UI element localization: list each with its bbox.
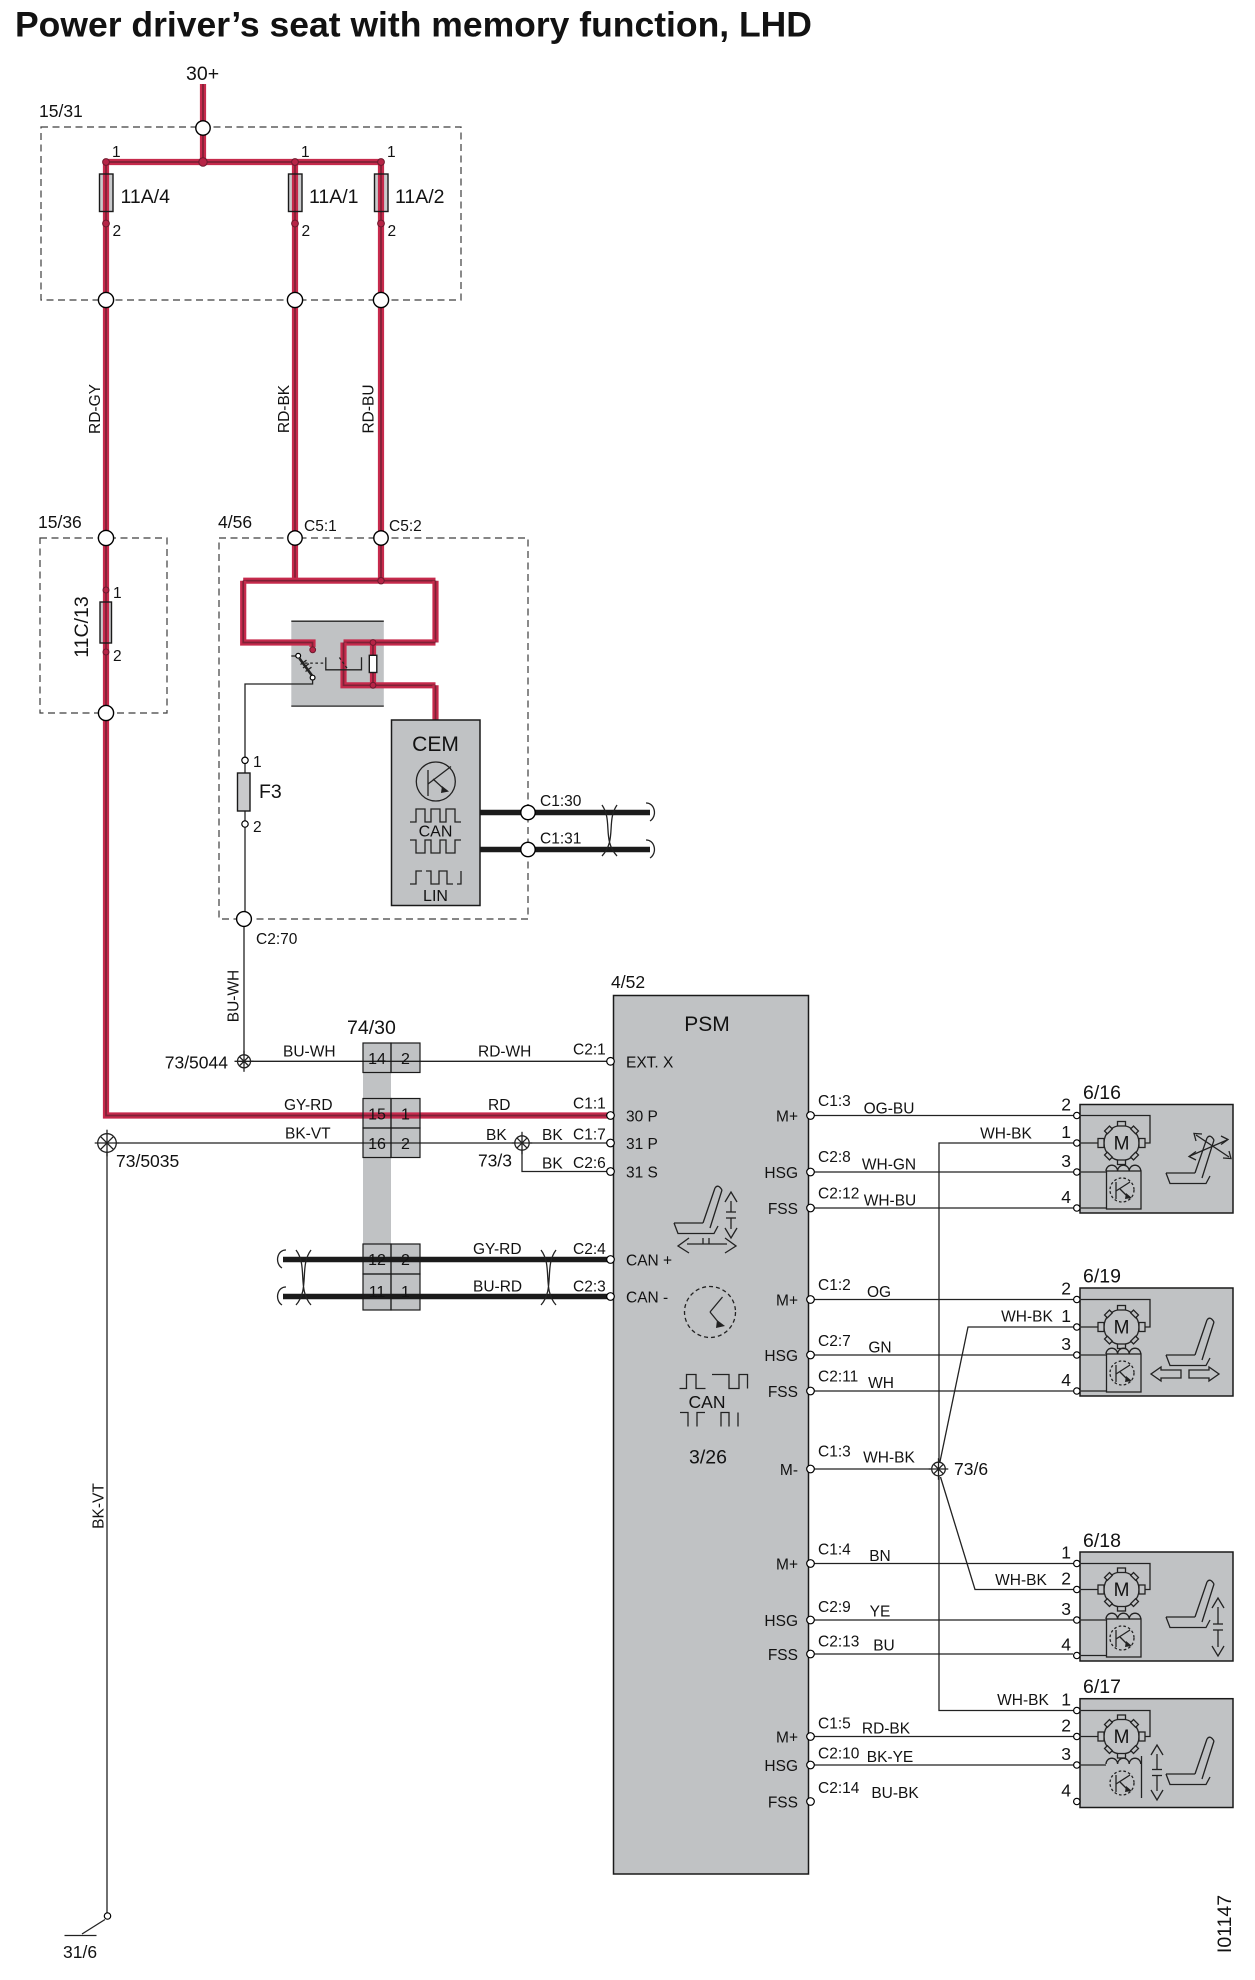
seat motor module 6/16 [1080, 1105, 1233, 1214]
PSM pin C1:7 31 P [607, 1139, 615, 1147]
connector circle 15/31 left [98, 292, 113, 307]
connector circle 15/31 right [373, 292, 388, 307]
svg-text:6/19: 6/19 [1083, 1266, 1121, 1288]
relay switch arm [300, 659, 313, 676]
svg-text:C1:3: C1:3 [818, 1444, 851, 1461]
PSM right pin FSS@1208 [807, 1204, 815, 1212]
svg-text:BN: BN [869, 1548, 891, 1565]
PSM timer/clock icon [685, 1287, 736, 1338]
connector circle C1:31 [521, 842, 535, 856]
svg-text:BK-YE: BK-YE [867, 1749, 914, 1766]
wire YE HSG to 6/18:3 [814, 1619, 1073, 1621]
PSM pin C2:1 EXT. X [607, 1058, 615, 1066]
svg-text:30+: 30+ [186, 63, 219, 85]
pin 6/19:4 [1074, 1388, 1080, 1394]
svg-text:1: 1 [113, 585, 122, 602]
seat icon 6/18 [1166, 1580, 1214, 1627]
connector circle 30+ / 15/31 [196, 121, 210, 135]
svg-text:31 S: 31 S [626, 1165, 658, 1182]
svg-text:BU-WH: BU-WH [283, 1044, 336, 1061]
pin 6/17:2 [1074, 1733, 1080, 1739]
wire 6/17 motor direct [1081, 1736, 1098, 1738]
PSM seat fore/aft arrow [678, 1238, 736, 1253]
svg-text:WH-BK: WH-BK [980, 1126, 1032, 1143]
wire 6/18 motor direct [1081, 1589, 1098, 1591]
svg-text:HSG: HSG [764, 1165, 798, 1182]
svg-text:GN: GN [868, 1340, 891, 1357]
PSM pin C1:1 30 P [607, 1112, 615, 1120]
svg-text:HSG: HSG [764, 1758, 798, 1775]
svg-text:C2:70: C2:70 [256, 931, 298, 948]
PSM right pin M+@1299.5 [807, 1296, 815, 1304]
heater/sensor unit 6/19 [1106, 1348, 1141, 1392]
pin 11A/2:2 [378, 220, 385, 227]
svg-text:3: 3 [1061, 1334, 1071, 1354]
pin 6/18:1 [1074, 1560, 1080, 1566]
svg-text:1: 1 [301, 144, 310, 161]
motor 6/19 [1098, 1306, 1145, 1349]
svg-text:1: 1 [1061, 1306, 1071, 1326]
svg-text:3: 3 [1061, 1744, 1071, 1764]
wire F3 top lead [244, 764, 246, 774]
svg-text:M: M [1114, 1318, 1130, 1339]
svg-text:C1:2: C1:2 [818, 1277, 851, 1294]
pin 6/18:4 [1074, 1652, 1080, 1658]
relay box edges [291, 621, 384, 706]
svg-text:M+: M+ [776, 1293, 798, 1310]
wire relay switch to F3 [245, 680, 313, 757]
connector 74/30 cells [363, 1043, 420, 1310]
svg-text:3: 3 [1061, 1151, 1071, 1171]
svg-text:1: 1 [1061, 1690, 1071, 1710]
wire BK-VT / BK to PSM 31P [114, 1142, 608, 1144]
svg-text:OG-BU: OG-BU [864, 1101, 915, 1118]
PSM seat up/down arrow [725, 1192, 737, 1238]
seat icon 6/16 [1166, 1136, 1214, 1183]
wire 6/18 heater lead [1081, 1619, 1106, 1621]
connector circle C2:70 [237, 912, 252, 927]
wire relay coil feed drop [432, 581, 438, 643]
pin F3:2 [242, 821, 248, 827]
wire 6/16 sensor lead [1081, 1207, 1107, 1209]
svg-text:FSS: FSS [768, 1795, 798, 1812]
PSM right pin HSG@1620 [807, 1616, 815, 1624]
pin 6/17:1 [1074, 1707, 1080, 1713]
svg-text:16: 16 [368, 1136, 386, 1153]
up/down arrow 6/18 [1212, 1598, 1224, 1656]
svg-text:1: 1 [1061, 1122, 1071, 1142]
svg-text:C2:14: C2:14 [818, 1780, 860, 1797]
PSM right pin FSS@1654 [807, 1650, 815, 1658]
svg-text:4: 4 [1061, 1635, 1071, 1655]
svg-text:30 P: 30 P [626, 1109, 658, 1126]
wire 6/19 heater lead [1081, 1354, 1106, 1356]
PSM pin C2:3 CAN - [607, 1293, 615, 1301]
svg-text:C1:31: C1:31 [540, 831, 581, 848]
connector circle 15/36 top [98, 530, 113, 545]
svg-text:14: 14 [368, 1051, 386, 1068]
seat motor module 6/19 [1080, 1288, 1233, 1396]
svg-text:BK-VT: BK-VT [91, 1483, 108, 1529]
wire GN HSG to 6/19:3 [814, 1354, 1073, 1356]
pin 6/18:3 [1074, 1617, 1080, 1623]
fuse 11A/1 [289, 174, 303, 212]
svg-text:C2:7: C2:7 [818, 1333, 851, 1350]
wire RD-BK M+ to 6/17:2 [814, 1736, 1073, 1738]
svg-text:CAN +: CAN + [626, 1253, 672, 1270]
PSM right pin HSG@1355 [807, 1351, 815, 1359]
seat motor module 6/17 [1080, 1699, 1233, 1808]
CEM LIN symbol [410, 871, 461, 884]
PSM right pin FSS@1801.5 [807, 1798, 815, 1806]
wire OG-BU M+ to 6/16:2 [814, 1115, 1073, 1117]
PSM CAN symbol [680, 1375, 748, 1389]
wire 6/18 sensor lead [1081, 1655, 1107, 1657]
wire coil loop [344, 643, 436, 686]
wire relay supply rail in 4/56 [243, 578, 435, 584]
svg-text:31 P: 31 P [626, 1136, 658, 1153]
relay armature pin [310, 675, 315, 680]
svg-text:73/5044: 73/5044 [165, 1053, 229, 1073]
CEM CAN symbol [410, 809, 461, 822]
svg-text:RD-BK: RD-BK [276, 384, 293, 433]
svg-text:M+: M+ [776, 1730, 798, 1747]
svg-text:1: 1 [387, 144, 396, 161]
svg-text:2: 2 [401, 1136, 410, 1153]
svg-text:74/30: 74/30 [347, 1017, 396, 1039]
PSM right pin M-@1469 [807, 1465, 815, 1473]
svg-text:M+: M+ [776, 1557, 798, 1574]
svg-text:HSG: HSG [764, 1613, 798, 1630]
svg-text:2: 2 [1061, 1095, 1071, 1115]
svg-text:11A/2: 11A/2 [395, 186, 445, 208]
wire 6/16 motor direct [1081, 1142, 1098, 1144]
pin 6/16:1 [1074, 1140, 1080, 1146]
fore/aft arrows 6/19 [1151, 1367, 1219, 1381]
svg-text:11A/1: 11A/1 [309, 186, 359, 208]
wire 6/17 motor loop [1081, 1711, 1150, 1737]
connector circle 15/31 mid [287, 292, 302, 307]
svg-text:C1:5: C1:5 [818, 1716, 851, 1733]
wire BU FSS to 6/18:4 [814, 1653, 1073, 1655]
wire relay switch lead [291, 655, 296, 657]
relay contact feed pin [310, 647, 316, 653]
fuse 11A/4 [100, 174, 114, 212]
svg-text:73/5035: 73/5035 [116, 1151, 179, 1171]
svg-text:12: 12 [368, 1252, 386, 1269]
twisted pair crossover CAN right [541, 1250, 556, 1305]
svg-text:OG: OG [867, 1284, 891, 1301]
motor 6/16 [1098, 1122, 1145, 1165]
fuse 11A/4 body [100, 174, 114, 212]
wire BK branch to PSM 31S [522, 1150, 607, 1172]
wire 6/19 motor loop [1081, 1300, 1150, 1328]
relay/CEM box 4/56 [219, 538, 528, 919]
svg-text:2: 2 [1061, 1716, 1071, 1736]
svg-text:BU: BU [873, 1638, 895, 1655]
svg-text:HSG: HSG [764, 1348, 798, 1365]
svg-text:C1:1: C1:1 [573, 1096, 606, 1113]
svg-text:6/17: 6/17 [1083, 1676, 1121, 1698]
wire 6/19 sensor lead [1081, 1390, 1107, 1392]
svg-text:FSS: FSS [768, 1201, 798, 1218]
wire RD-BK run to C5:1 [292, 162, 298, 545]
splice 73/5044 [235, 1051, 254, 1072]
pin 11C/13:1 [103, 587, 109, 593]
svg-text:73/3: 73/3 [478, 1151, 512, 1171]
svg-text:1: 1 [401, 1107, 410, 1124]
wire F3 to C2:70 [244, 811, 246, 916]
svg-text:2: 2 [113, 223, 122, 240]
svg-text:CAN: CAN [419, 824, 453, 841]
relay contact pin [296, 653, 301, 658]
svg-text:BU-RD: BU-RD [473, 1279, 522, 1296]
svg-text:M+: M+ [776, 1109, 798, 1126]
svg-text:1: 1 [1061, 1543, 1071, 1563]
PSM right pin HSG@1172 [807, 1168, 815, 1176]
svg-text:15/36: 15/36 [38, 512, 82, 532]
wire BK-YE HSG to 6/17:3 [814, 1764, 1073, 1766]
seat motor module 6/18 [1080, 1552, 1233, 1661]
seat icon 6/19 [1166, 1318, 1214, 1365]
svg-text:I01147: I01147 [1214, 1895, 1236, 1953]
svg-text:M-: M- [780, 1462, 798, 1479]
junction 30+ rail [199, 158, 207, 166]
up/down arrow 6/17 [1151, 1745, 1163, 1800]
svg-text:RD-BK: RD-BK [862, 1721, 911, 1738]
svg-text:11: 11 [369, 1284, 386, 1301]
svg-text:PSM: PSM [684, 1013, 730, 1036]
connector circle C5:2 [374, 531, 388, 545]
relay coil pin top [370, 640, 376, 646]
pin 11A/1:2 [292, 220, 299, 227]
CAN wire start hooks [278, 1250, 286, 1305]
svg-text:WH-BK: WH-BK [997, 1692, 1049, 1709]
PSM pin C2:4 CAN + [607, 1256, 615, 1264]
wire BK-VT ground run [106, 1152, 108, 1913]
PSM right pin HSG@1765 [807, 1761, 815, 1769]
svg-text:Power driver’s seat with memor: Power driver’s seat with memory function… [15, 5, 812, 45]
svg-text:4: 4 [1061, 1187, 1071, 1207]
pin 6/16:4 [1074, 1205, 1080, 1211]
fuse holder box 15/36 [40, 538, 167, 713]
svg-text:C2:4: C2:4 [573, 1241, 606, 1258]
CAN wire end hooks CEM [646, 803, 654, 858]
pin 6/17:3 [1074, 1762, 1080, 1768]
fuse 11C/13 body [100, 602, 112, 643]
svg-text:BU-WH: BU-WH [226, 970, 243, 1023]
pin 6/19:3 [1074, 1352, 1080, 1358]
wire 6/16 heater lead [1081, 1171, 1106, 1173]
wire C5:1 drop into 4/56 [292, 538, 298, 581]
svg-text:BK: BK [542, 1156, 563, 1173]
connector 74/30 body [363, 1043, 391, 1310]
svg-text:11C/13: 11C/13 [71, 596, 93, 657]
svg-text:CEM: CEM [412, 733, 459, 756]
svg-text:4/56: 4/56 [218, 512, 252, 532]
wire 6/18 motor loop [1081, 1564, 1150, 1590]
wire WH-BK splice to 6/17:1 [939, 1476, 1073, 1711]
pin 11A/2:1 [378, 159, 385, 166]
pin 11A/1:1 [292, 159, 299, 166]
svg-text:CAN -: CAN - [626, 1290, 668, 1307]
svg-text:WH-BK: WH-BK [1001, 1309, 1053, 1326]
svg-text:3/26: 3/26 [689, 1447, 727, 1469]
pin 11A/4:1 [103, 159, 110, 166]
svg-text:4/52: 4/52 [611, 972, 645, 992]
wire BN M+ to 6/18:1 [814, 1563, 1073, 1565]
svg-text:C2:12: C2:12 [818, 1186, 859, 1203]
fuse 11A/2 [375, 174, 389, 212]
pin 11C/13:2 [103, 649, 109, 655]
svg-text:RD-WH: RD-WH [478, 1044, 531, 1061]
wire RD-GY / GY-RD / RD run to PSM 30P [106, 162, 607, 1116]
wire WH-BK 6/19:1 to splice 73/6 [940, 1327, 1074, 1464]
wire WH-BK 6/16:1 to splice 73/6 [939, 1143, 1073, 1462]
svg-text:6/18: 6/18 [1083, 1530, 1121, 1552]
svg-text:RD: RD [488, 1097, 510, 1114]
CEM immobilizer icon [416, 762, 455, 801]
ground 31/6 [104, 1913, 110, 1919]
svg-text:C2:10: C2:10 [818, 1746, 860, 1763]
svg-text:F3: F3 [259, 781, 282, 803]
splice 73/6 [929, 1458, 949, 1480]
svg-text:FSS: FSS [768, 1384, 798, 1401]
relay coil F/3 resistor [369, 655, 377, 672]
wire RD-BU run to C5:2 [378, 162, 384, 580]
wire WH-GN HSG to 6/16:3 [814, 1171, 1073, 1173]
svg-text:73/6: 73/6 [954, 1459, 988, 1479]
motor 6/18 [1098, 1568, 1145, 1611]
wire 6/19 motor direct [1081, 1326, 1098, 1328]
svg-text:C2:11: C2:11 [818, 1369, 858, 1386]
svg-text:11A/4: 11A/4 [121, 186, 171, 208]
connector circle C5:1 [288, 531, 302, 545]
fuse holder box 15/31 [41, 127, 461, 300]
fuse 11A/2 body [375, 174, 389, 212]
PSM right pin M+@1736.5 [807, 1733, 815, 1741]
svg-text:1: 1 [253, 754, 262, 771]
fuse 11C/13 [100, 602, 112, 643]
svg-text:2: 2 [302, 223, 311, 240]
relay body 4/56 internal [291, 621, 384, 707]
wire coil top link [344, 639, 436, 645]
seat icon 6/17 [1166, 1737, 1214, 1784]
wire WH FSS to 6/19:4 [814, 1390, 1073, 1392]
relay coil pin bottom [370, 682, 376, 688]
crossed arrows 6/16 [1189, 1134, 1231, 1161]
pin 6/19:2 [1074, 1296, 1080, 1302]
svg-text:C5:1: C5:1 [304, 518, 337, 535]
pin 6/16:3 [1074, 1169, 1080, 1175]
PSM right pin M+@1115.5 [807, 1112, 815, 1120]
wire relay actuator dashed link [305, 662, 325, 664]
control module PSM 4/52 [614, 996, 809, 1875]
svg-text:M: M [1114, 1580, 1130, 1601]
wire CAN - to PSM C2:3 [283, 1294, 610, 1299]
junction C5:2 rail [378, 578, 384, 584]
wire BU-WH / RD-WH to PSM EXT.X [251, 1060, 608, 1062]
svg-text:2: 2 [401, 1252, 410, 1269]
wire 30+ feed [200, 84, 206, 162]
heater/sensor unit 6/17 [1106, 1756, 1142, 1798]
svg-text:C1:30: C1:30 [540, 793, 582, 810]
pin 6/17:4 [1074, 1798, 1080, 1804]
svg-text:2: 2 [401, 1051, 410, 1068]
svg-text:BK-VT: BK-VT [285, 1126, 331, 1143]
svg-text:C5:2: C5:2 [389, 518, 422, 535]
svg-text:EXT. X: EXT. X [626, 1054, 674, 1071]
svg-text:YE: YE [870, 1604, 891, 1621]
wire relay contact feed [243, 581, 312, 647]
svg-text:31/6: 31/6 [63, 1942, 97, 1962]
wire CEM CAN low C1:31 [480, 847, 650, 852]
wire OG M+ to 6/19:2 [814, 1299, 1073, 1301]
svg-text:M: M [1114, 1134, 1130, 1155]
svg-text:1: 1 [112, 144, 121, 161]
wire 6/16 motor loop [1081, 1116, 1150, 1144]
svg-text:2: 2 [1061, 1569, 1071, 1589]
svg-text:WH: WH [868, 1375, 894, 1392]
PSM pin C2:6 31 S [607, 1168, 615, 1176]
wire coil through stub [370, 643, 376, 686]
svg-text:1: 1 [401, 1284, 410, 1301]
svg-text:C2:1: C2:1 [573, 1042, 606, 1059]
PSM right pin FSS@1391 [807, 1387, 815, 1395]
svg-text:C1:4: C1:4 [818, 1542, 851, 1559]
svg-text:15: 15 [368, 1107, 386, 1124]
fuse F3 [238, 773, 251, 811]
svg-text:GY-RD: GY-RD [473, 1241, 522, 1258]
wire 6/17 heater lead [1081, 1764, 1106, 1766]
svg-text:3: 3 [1061, 1599, 1071, 1619]
heater/sensor unit 6/18 [1106, 1613, 1141, 1657]
svg-text:2: 2 [113, 648, 122, 665]
svg-text:15/31: 15/31 [39, 101, 83, 121]
svg-text:CAN: CAN [689, 1392, 726, 1412]
wire fuse supply rail [106, 159, 381, 165]
pin 11A/4:2 [103, 220, 110, 227]
svg-text:BK: BK [486, 1127, 507, 1144]
connector circle 15/36 bottom [98, 705, 113, 720]
svg-text:C1:3: C1:3 [818, 1093, 851, 1110]
relay fixed contact [326, 657, 362, 670]
svg-text:C2:6: C2:6 [573, 1155, 606, 1172]
wire WH-BK splice to 6/18:2 [941, 1477, 1074, 1590]
svg-text:GY-RD: GY-RD [284, 1097, 333, 1114]
svg-text:C1:7: C1:7 [573, 1127, 606, 1144]
control module CEM [392, 720, 481, 906]
svg-text:C2:3: C2:3 [573, 1279, 606, 1296]
pin F3:1 [242, 757, 248, 763]
svg-text:4: 4 [1061, 1370, 1071, 1390]
wire WH-BK M- to splice 73/6 [814, 1468, 931, 1470]
wire BU-WH drop to splice 73/5044 [243, 926, 245, 1055]
svg-text:M: M [1114, 1727, 1130, 1748]
svg-text:WH-BU: WH-BU [864, 1193, 917, 1210]
splice 73/3 [512, 1132, 532, 1154]
svg-text:2: 2 [388, 223, 397, 240]
svg-text:6/16: 6/16 [1083, 1082, 1121, 1104]
svg-text:WH-BK: WH-BK [863, 1450, 915, 1467]
wire WH-BU FSS to 6/16:4 [814, 1207, 1073, 1209]
fuse 11A/1 body [289, 174, 303, 212]
motor 6/17 [1098, 1715, 1145, 1758]
svg-text:BU-BK: BU-BK [871, 1785, 919, 1802]
svg-text:2: 2 [253, 819, 262, 836]
wire relay output to CEM [432, 685, 438, 722]
wire CEM CAN high C1:30 [480, 810, 650, 815]
